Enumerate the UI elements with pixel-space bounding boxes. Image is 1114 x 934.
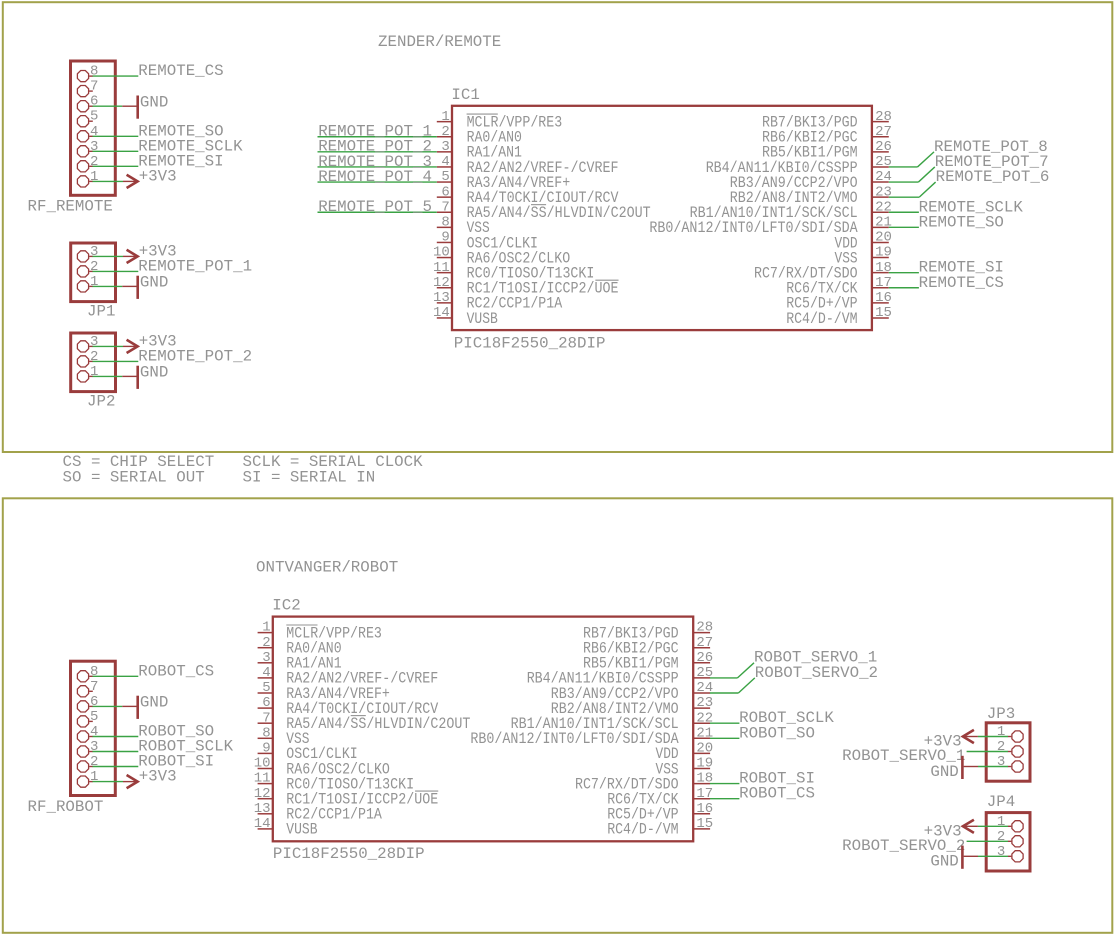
svg-text:28: 28 <box>875 109 892 125</box>
ground symbol GND at RF_ROBOT pin 6 <box>122 696 137 719</box>
svg-text:2: 2 <box>997 829 1005 845</box>
svg-text:16: 16 <box>696 801 713 817</box>
IC1 pin 18 lead <box>872 272 889 274</box>
drawing frame (bottom sheet border) <box>3 498 1113 933</box>
connector JP2 body <box>71 333 116 392</box>
connector JP3 body <box>986 723 1030 781</box>
IC1 pin 6 lead <box>437 196 452 198</box>
IC1 pin 24 lead <box>872 181 889 183</box>
wire net GND from RF_REMOTE pin 6 <box>93 105 123 107</box>
ground symbol GND at JP1 pin 1 <box>122 276 137 299</box>
svg-text:5: 5 <box>90 709 98 725</box>
wire net GND from JP1 pin 1 <box>93 285 123 287</box>
svg-text:5: 5 <box>441 169 449 185</box>
svg-text:ONTVANGER/ROBOT: ONTVANGER/ROBOT <box>256 559 398 577</box>
IC2 pin 17 lead <box>693 798 710 800</box>
svg-text:16: 16 <box>875 290 892 306</box>
wire net +3V3 from JP4 pin 1 <box>978 825 1008 827</box>
svg-text:13: 13 <box>433 290 450 306</box>
svg-text:14: 14 <box>433 305 450 321</box>
svg-text:REMOTE_CS: REMOTE_CS <box>919 274 1004 292</box>
svg-text:4: 4 <box>262 665 270 681</box>
IC2 pin 26 lead <box>693 662 710 664</box>
svg-text:19: 19 <box>696 756 713 772</box>
svg-text:2: 2 <box>997 739 1005 755</box>
svg-text:RF_ROBOT: RF_ROBOT <box>28 798 104 816</box>
svg-text:RA5/AN4/SS/HLVDIN/C2OUT: RA5/AN4/SS/HLVDIN/C2OUT <box>286 715 470 733</box>
wire net GND from JP4 pin 3 <box>978 855 1008 857</box>
svg-text:6: 6 <box>262 695 270 711</box>
svg-text:3: 3 <box>90 334 98 350</box>
wire net REMOTE_SCLK from RF_REMOTE pin 3 <box>93 150 139 152</box>
svg-text:1: 1 <box>90 769 98 785</box>
wire net ROBOT_SO from RF_ROBOT pin 4 <box>93 736 139 738</box>
ground symbol GND at RF_REMOTE pin 6 <box>122 96 137 119</box>
wire net REMOTE_POT_2 to IC1 pin 3 <box>318 151 437 153</box>
IC2 active-low overline on pin 1 name <box>286 624 317 626</box>
IC1 pin 5 lead <box>437 181 452 183</box>
svg-text:9: 9 <box>441 230 449 246</box>
svg-text:3: 3 <box>997 844 1005 860</box>
svg-text:23: 23 <box>696 695 713 711</box>
svg-text:VUSB: VUSB <box>467 310 498 328</box>
svg-text:2: 2 <box>90 754 98 770</box>
svg-text:+3V3: +3V3 <box>139 768 177 786</box>
svg-text:1: 1 <box>90 364 98 380</box>
IC2 pin 10 lead <box>258 768 273 770</box>
drawing frame (top sheet border) <box>3 2 1113 452</box>
IC1 active-low overline on pin 7 name <box>531 204 546 206</box>
svg-text:28: 28 <box>696 620 713 636</box>
svg-text:6: 6 <box>90 94 98 110</box>
wire net +3V3 from JP1 pin 3 <box>93 255 124 257</box>
IC2 pin 16 lead <box>693 813 710 815</box>
IC1 pin 16 lead <box>872 302 889 304</box>
svg-text:REMOTE_POT_6: REMOTE_POT_6 <box>936 168 1050 186</box>
wire net +3V3 from RF_ROBOT pin 1 <box>93 781 124 783</box>
svg-text:2: 2 <box>90 154 98 170</box>
svg-text:ROBOT_SO: ROBOT_SO <box>739 724 815 742</box>
svg-text:26: 26 <box>696 650 713 666</box>
IC2 pin 19 lead <box>693 768 710 770</box>
svg-text:18: 18 <box>875 260 892 276</box>
svg-text:22: 22 <box>875 199 892 215</box>
IC2 pin 21 lead <box>693 737 710 739</box>
IC2 pin 13 lead <box>258 813 273 815</box>
IC2 pin 18 lead <box>693 783 710 785</box>
wire net +3V3 from RF_REMOTE pin 1 <box>93 180 124 182</box>
wire net REMOTE_SI from RF_REMOTE pin 2 <box>93 165 139 167</box>
IC2 pin 6 lead <box>258 707 273 709</box>
IC2 pin 24 lead <box>693 692 710 694</box>
IC1 pin 14 lead <box>437 317 452 319</box>
ground symbol GND at JP2 pin 1 <box>122 366 137 389</box>
svg-text:13: 13 <box>254 801 271 817</box>
wire net GND from JP2 pin 1 <box>93 375 123 377</box>
ground symbol GND at JP4 pin 3 <box>962 846 978 869</box>
wire net ROBOT_SERVO_2 (diagonal jog) <box>738 678 754 693</box>
svg-text:11: 11 <box>433 260 450 276</box>
svg-text:3: 3 <box>90 244 98 260</box>
svg-text:10: 10 <box>433 245 450 261</box>
wire net +3V3 from JP2 pin 3 <box>93 345 124 347</box>
svg-text:PIC18F2550_28DIP: PIC18F2550_28DIP <box>454 335 606 353</box>
svg-text:23: 23 <box>875 184 892 200</box>
IC1 pin 15 lead <box>872 317 889 319</box>
svg-text:REMOTE_POT_4: REMOTE_POT_4 <box>318 168 432 186</box>
svg-text:RB0/AN12/INT0/LFT0/SDI/SDA: RB0/AN12/INT0/LFT0/SDI/SDA <box>470 730 679 748</box>
svg-text:20: 20 <box>696 741 713 757</box>
wire net REMOTE_CS from RF_REMOTE pin 8 <box>93 75 139 77</box>
wire net ROBOT_SCLK from RF_ROBOT pin 3 <box>93 751 139 753</box>
svg-text:27: 27 <box>696 635 713 651</box>
supply symbol +3V3 at RF_REMOTE pin 1 <box>123 175 138 188</box>
svg-text:1: 1 <box>90 274 98 290</box>
wire net ROBOT_SO from IC2 pin 21 <box>710 737 740 739</box>
svg-text:GND: GND <box>140 274 168 292</box>
svg-text:RF_REMOTE: RF_REMOTE <box>28 198 113 216</box>
ground symbol GND at JP3 pin 3 <box>962 756 978 779</box>
IC1 pin 20 lead <box>872 241 889 243</box>
svg-text:ROBOT_SERVO_2: ROBOT_SERVO_2 <box>755 664 878 682</box>
IC1 pin 22 lead <box>872 211 889 213</box>
svg-text:IC2: IC2 <box>272 596 300 614</box>
wire net ROBOT_SERVO_1 (diagonal jog) <box>738 663 755 678</box>
svg-text:1: 1 <box>997 724 1005 740</box>
wire net +3V3 from JP3 pin 1 <box>978 736 1008 738</box>
svg-text:JP1: JP1 <box>87 303 115 321</box>
IC1 pin 1 lead <box>437 121 452 123</box>
svg-text:15: 15 <box>696 816 713 832</box>
svg-text:ROBOT_CS: ROBOT_CS <box>739 785 815 803</box>
svg-text:JP4: JP4 <box>987 793 1015 811</box>
wire net REMOTE_POT_7 from IC1 pin 24 (horizontal) <box>889 181 919 183</box>
IC2 pin 15 lead <box>693 828 710 830</box>
IC2 pin 5 lead <box>258 692 273 694</box>
IC1 pin 26 lead <box>872 151 889 153</box>
svg-text:+3V3: +3V3 <box>139 168 177 186</box>
svg-text:GND: GND <box>140 364 168 382</box>
svg-text:RA5/AN4/SS/HLVDIN/C2OUT: RA5/AN4/SS/HLVDIN/C2OUT <box>467 204 651 222</box>
supply symbol +3V3 at JP1 pin 3 <box>123 250 138 263</box>
svg-text:11: 11 <box>254 771 271 787</box>
IC1 pin 27 lead <box>872 136 889 138</box>
IC1 pin 7 lead <box>437 211 452 213</box>
IC IC2 body outline <box>273 617 693 842</box>
svg-text:3: 3 <box>90 739 98 755</box>
supply symbol +3V3 at JP4 pin 1 <box>963 820 978 833</box>
IC1 pin 12 lead <box>437 287 452 289</box>
svg-text:2: 2 <box>90 259 98 275</box>
svg-text:REMOTE_SO: REMOTE_SO <box>919 213 1004 231</box>
wire net ROBOT_CS from RF_ROBOT pin 8 <box>93 675 139 677</box>
IC2 pin 22 lead <box>693 722 710 724</box>
wire net ROBOT_SERVO_1 from IC2 pin 25 (horizontal) <box>710 677 738 679</box>
wire net REMOTE_SCLK from IC1 pin 22 <box>889 211 919 213</box>
IC1 pin 2 lead <box>437 136 452 138</box>
wire net ROBOT_SI from IC2 pin 18 <box>710 783 740 785</box>
svg-text:12: 12 <box>433 275 450 291</box>
svg-text:5: 5 <box>90 109 98 125</box>
IC1 pin 10 lead <box>437 257 452 259</box>
IC2 pin 8 lead <box>258 737 273 739</box>
svg-text:12: 12 <box>254 786 271 802</box>
wire net REMOTE_POT_6 (diagonal jog) <box>919 182 935 197</box>
svg-text:5: 5 <box>262 680 270 696</box>
svg-text:8: 8 <box>90 664 98 680</box>
svg-text:8: 8 <box>262 725 270 741</box>
svg-text:SO = SERIAL OUT: SO = SERIAL OUT <box>63 469 205 487</box>
IC1 active-low overline on pin 1 name <box>467 113 498 115</box>
wire net REMOTE_POT_6 from IC1 pin 23 (horizontal) <box>889 196 920 198</box>
wire net REMOTE_CS from IC1 pin 17 <box>889 287 919 289</box>
IC2 pin 14 lead <box>258 828 273 830</box>
IC1 pin 13 lead <box>437 302 452 304</box>
wire net ROBOT_CS from IC2 pin 17 <box>710 798 740 800</box>
svg-text:6: 6 <box>441 184 449 200</box>
svg-text:19: 19 <box>875 245 892 261</box>
svg-text:10: 10 <box>254 756 271 772</box>
svg-text:GND: GND <box>140 94 168 112</box>
svg-text:27: 27 <box>875 124 892 140</box>
wire net REMOTE_POT_5 to IC1 pin 7 <box>318 211 437 213</box>
IC2 pin 12 lead <box>258 798 273 800</box>
svg-text:17: 17 <box>875 275 892 291</box>
IC2 pin 2 lead <box>258 647 273 649</box>
svg-text:RB0/AN12/INT0/LFT0/SDI/SDA: RB0/AN12/INT0/LFT0/SDI/SDA <box>649 219 858 237</box>
svg-text:REMOTE_CS: REMOTE_CS <box>138 62 223 80</box>
IC2 pin 1 lead <box>258 632 273 634</box>
IC1 pin 8 lead <box>437 226 452 228</box>
IC2 pin 20 lead <box>693 752 710 754</box>
wire net REMOTE_POT_4 to IC1 pin 5 <box>318 181 437 183</box>
wire net ROBOT_SERVO_2 from IC2 pin 24 (horizontal) <box>710 692 739 694</box>
wire net REMOTE_POT_1 to IC1 pin 2 <box>318 136 437 138</box>
IC2 active-low overline on pin 7 name <box>351 715 366 717</box>
IC1 pin 17 lead <box>872 287 889 289</box>
svg-text:SI = SERIAL IN: SI = SERIAL IN <box>243 469 376 487</box>
svg-text:JP3: JP3 <box>987 705 1015 723</box>
svg-text:8: 8 <box>441 214 449 230</box>
svg-text:1: 1 <box>441 109 449 125</box>
svg-text:26: 26 <box>875 139 892 155</box>
IC1 active-low overline on pin 12 name <box>595 279 618 281</box>
svg-text:6: 6 <box>90 694 98 710</box>
IC2 pin 7 lead <box>258 722 273 724</box>
svg-text:PIC18F2550_28DIP: PIC18F2550_28DIP <box>273 845 425 863</box>
wire net GND from RF_ROBOT pin 6 <box>93 705 123 707</box>
wire net ROBOT_SERVO_1 from JP3 pin 2 <box>967 751 1008 753</box>
svg-text:7: 7 <box>441 199 449 215</box>
svg-text:1: 1 <box>90 169 98 185</box>
wire net REMOTE_SO from RF_REMOTE pin 4 <box>93 135 139 137</box>
svg-text:7: 7 <box>90 679 98 695</box>
IC2 pin 28 lead <box>693 632 710 634</box>
IC1 pin 28 lead <box>872 121 889 123</box>
svg-text:4: 4 <box>90 724 98 740</box>
svg-text:GND: GND <box>140 694 168 712</box>
IC1 pin 21 lead <box>872 226 889 228</box>
wire net GND from JP3 pin 3 <box>978 766 1008 768</box>
wire net REMOTE_POT_3 to IC1 pin 4 <box>318 166 437 168</box>
wire net ROBOT_SI from RF_ROBOT pin 2 <box>93 766 139 768</box>
wire net REMOTE_POT_2 from JP2 pin 2 <box>93 360 139 362</box>
svg-text:2: 2 <box>441 124 449 140</box>
IC1 pin 9 lead <box>437 241 452 243</box>
IC1 pin 25 lead <box>872 166 889 168</box>
svg-text:4: 4 <box>90 124 98 140</box>
supply symbol +3V3 at JP3 pin 1 <box>963 730 978 743</box>
IC1 pin 11 lead <box>437 272 452 274</box>
wire net ROBOT_SERVO_2 from JP4 pin 2 <box>967 840 1008 842</box>
IC1 pin 23 lead <box>872 196 889 198</box>
IC1 pin 19 lead <box>872 257 889 259</box>
svg-text:7: 7 <box>90 79 98 95</box>
svg-text:GND: GND <box>930 853 958 871</box>
svg-text:GND: GND <box>930 763 958 781</box>
IC1 pin 3 lead <box>437 151 452 153</box>
svg-text:IC1: IC1 <box>451 86 479 104</box>
IC1 pin 4 lead <box>437 166 452 168</box>
svg-text:ROBOT_CS: ROBOT_CS <box>138 662 214 680</box>
svg-text:8: 8 <box>90 64 98 80</box>
svg-text:9: 9 <box>262 741 270 757</box>
svg-text:2: 2 <box>90 349 98 365</box>
svg-text:3: 3 <box>441 139 449 155</box>
svg-text:ZENDER/REMOTE: ZENDER/REMOTE <box>378 33 501 51</box>
svg-text:3: 3 <box>90 139 98 155</box>
svg-text:14: 14 <box>254 816 271 832</box>
IC2 pin 27 lead <box>693 647 710 649</box>
wire net REMOTE_POT_8 from IC1 pin 25 (horizontal) <box>889 166 918 168</box>
connector RF_ROBOT body <box>71 661 116 795</box>
connector JP4 body <box>986 813 1030 871</box>
IC2 pin 3 lead <box>258 662 273 664</box>
wire net REMOTE_POT_7 (diagonal jog) <box>918 167 934 182</box>
IC2 pin 25 lead <box>693 677 710 679</box>
svg-text:RC4/D-/VM: RC4/D-/VM <box>786 310 857 328</box>
svg-text:2: 2 <box>262 635 270 651</box>
wire net REMOTE_POT_1 from JP1 pin 2 <box>93 270 139 272</box>
svg-text:VUSB: VUSB <box>286 821 317 839</box>
wire net REMOTE_POT_8 (diagonal jog) <box>918 152 935 167</box>
svg-text:3: 3 <box>262 650 270 666</box>
connector RF_REMOTE body <box>71 61 116 195</box>
svg-text:4: 4 <box>441 154 449 170</box>
wire net REMOTE_SI from IC1 pin 18 <box>889 272 919 274</box>
IC2 pin 4 lead <box>258 677 273 679</box>
IC2 active-low overline on pin 12 name <box>415 790 438 792</box>
svg-text:JP2: JP2 <box>87 393 115 411</box>
svg-text:7: 7 <box>262 710 270 726</box>
supply symbol +3V3 at JP2 pin 3 <box>123 340 138 353</box>
connector JP1 body <box>71 243 116 302</box>
IC2 pin 11 lead <box>258 783 273 785</box>
svg-text:20: 20 <box>875 230 892 246</box>
svg-text:REMOTE_POT_5: REMOTE_POT_5 <box>318 198 432 216</box>
svg-text:1: 1 <box>262 620 270 636</box>
wire net REMOTE_SO from IC1 pin 21 <box>889 226 919 228</box>
IC2 pin 9 lead <box>258 752 273 754</box>
svg-text:1: 1 <box>997 814 1005 830</box>
svg-text:3: 3 <box>997 754 1005 770</box>
IC2 pin 23 lead <box>693 707 710 709</box>
svg-text:25: 25 <box>875 154 892 170</box>
IC IC1 body outline <box>452 106 872 330</box>
svg-text:RC4/D-/VM: RC4/D-/VM <box>607 821 678 839</box>
supply symbol +3V3 at RF_ROBOT pin 1 <box>123 775 138 788</box>
svg-text:15: 15 <box>875 305 892 321</box>
wire net ROBOT_SCLK from IC2 pin 22 <box>710 722 740 724</box>
